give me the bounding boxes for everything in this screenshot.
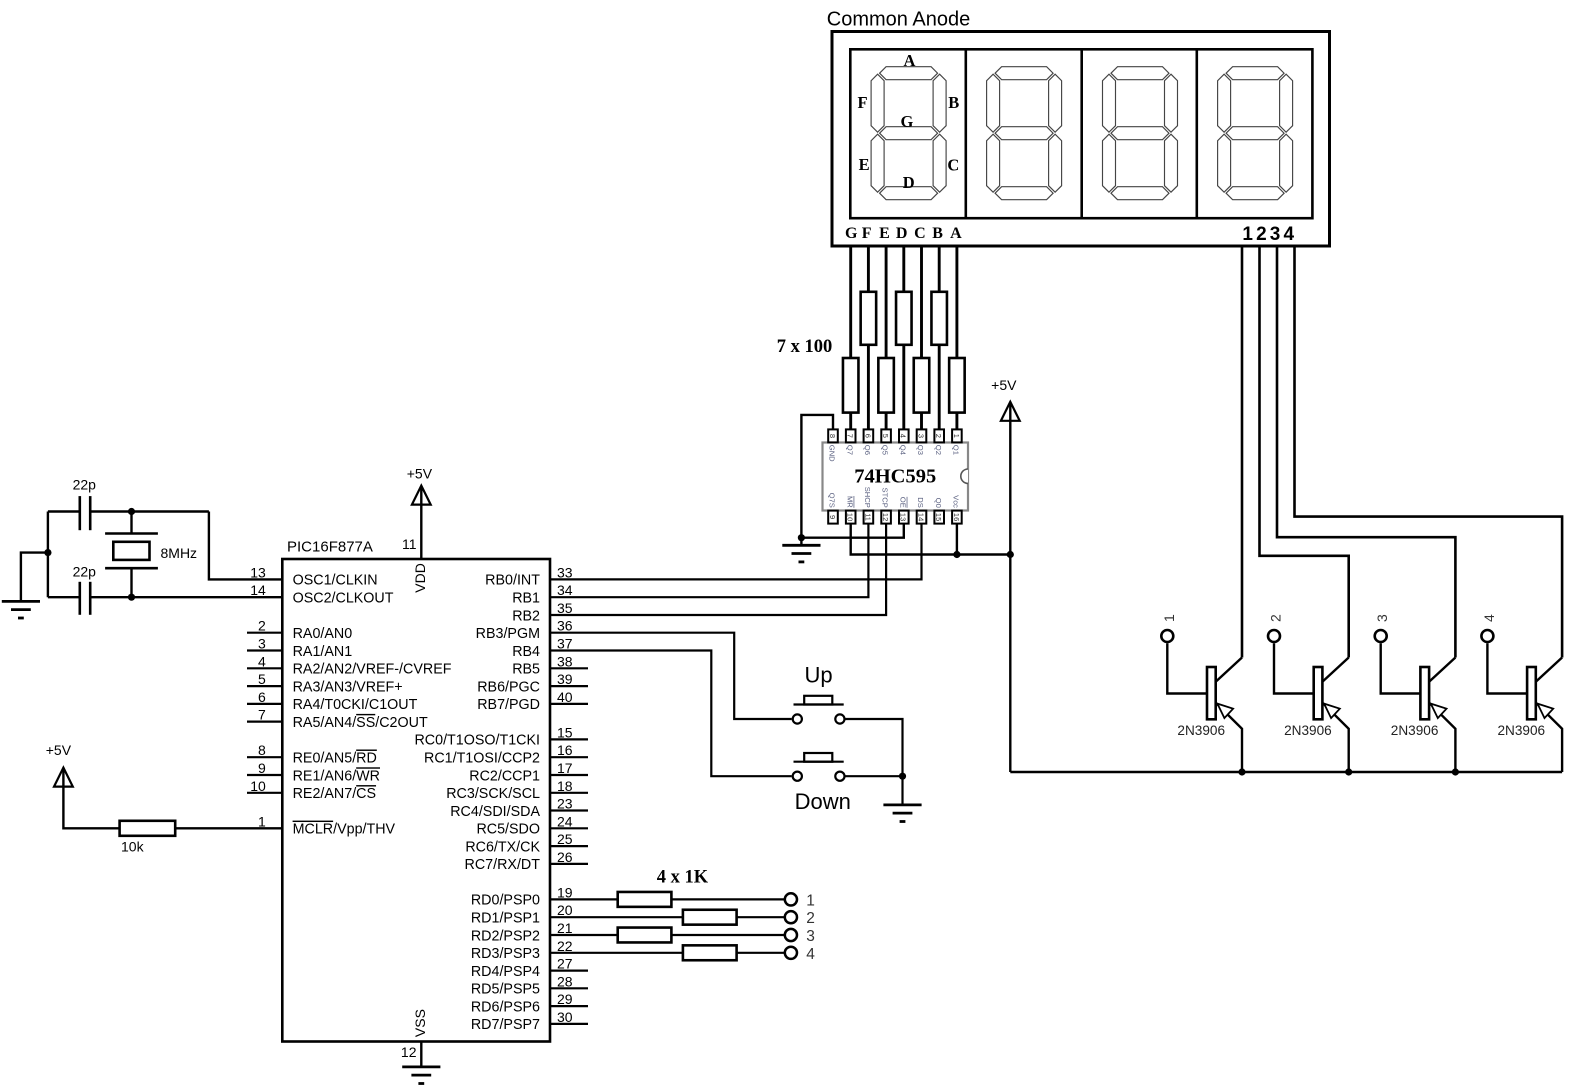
svg-text:14: 14 <box>250 582 266 598</box>
output terminal 3 <box>785 929 797 941</box>
7-segment display module outer box <box>832 32 1330 247</box>
pin stub right pin 16 RC1/T1OSI/CCP2 <box>550 756 588 758</box>
wire display segment D to 74HC595 pin 4 <box>902 246 905 429</box>
svg-text:A: A <box>950 225 962 242</box>
svg-text:13: 13 <box>250 564 266 580</box>
svg-text:2: 2 <box>806 910 815 927</box>
wire display pin 1 to Q1 collector <box>1241 246 1244 658</box>
pin stub right pin 26 RC7/RX/DT <box>550 863 588 865</box>
base terminal 3 <box>1375 630 1387 642</box>
svg-text:RE0/AN5/RD: RE0/AN5/RD <box>293 751 377 767</box>
resistor 100 ohm for segment C <box>914 358 930 413</box>
svg-text:24: 24 <box>557 813 573 829</box>
pin stub left pin 7 RA5/AN4/SS/C2OUT <box>247 720 282 722</box>
svg-text:F: F <box>857 93 867 112</box>
svg-text:1: 1 <box>1242 224 1253 245</box>
junction buttons ground node <box>899 773 906 780</box>
wire display segment A to 74HC595 pin 1 <box>955 246 958 429</box>
74HC595 bottom pin box 11 <box>864 511 874 524</box>
svg-text:7: 7 <box>258 707 266 723</box>
svg-text:2N3906: 2N3906 <box>1391 723 1439 738</box>
74HC595 bottom pin box 15 <box>934 511 944 524</box>
wire RD1/PSP1 to output 2 <box>550 916 784 918</box>
wire +5V to MCLR pin 1 <box>63 768 282 829</box>
pin stub right pin 30 RD7/PSP7 <box>550 1023 588 1025</box>
svg-text:Q5: Q5 <box>881 445 890 455</box>
wire left side of caps <box>47 512 49 598</box>
wire OSC1 from crystal to pin 13 <box>209 512 282 580</box>
svg-text:Up: Up <box>804 662 832 687</box>
pin stub left pin 6 RA4/T0CKI/C1OUT <box>247 703 282 705</box>
svg-text:DS: DS <box>916 497 925 508</box>
svg-text:28: 28 <box>557 973 573 989</box>
svg-text:F: F <box>862 225 872 242</box>
svg-text:Q7: Q7 <box>845 445 854 455</box>
svg-text:RD1/PSP1: RD1/PSP1 <box>471 911 540 927</box>
svg-text:25: 25 <box>557 831 573 847</box>
pin stub right pin 25 RC6/TX/CK <box>550 845 588 847</box>
svg-text:PIC16F877A: PIC16F877A <box>287 539 373 556</box>
svg-text:9: 9 <box>258 760 266 776</box>
svg-text:RB5: RB5 <box>512 662 540 678</box>
svg-text:3: 3 <box>1270 224 1281 245</box>
svg-text:12: 12 <box>401 1044 417 1060</box>
wire 74HC595 pin 10 MR to +5V rail <box>851 524 1011 555</box>
junction emitter Q1 on +5V rail <box>1238 768 1245 775</box>
svg-text:1: 1 <box>952 434 961 438</box>
svg-text:2: 2 <box>1256 224 1267 245</box>
svg-text:30: 30 <box>557 1009 573 1025</box>
svg-text:38: 38 <box>557 653 573 669</box>
svg-text:RA2/AN2/VREF-/CVREF: RA2/AN2/VREF-/CVREF <box>293 662 452 678</box>
resistor 1K number 3 <box>618 928 672 943</box>
svg-text:Q1: Q1 <box>952 445 961 455</box>
svg-text:16: 16 <box>557 742 573 758</box>
svg-text:MCLR/Vpp/THV: MCLR/Vpp/THV <box>293 822 396 838</box>
svg-text:1: 1 <box>258 813 266 829</box>
wire display segment F to 74HC595 pin 6 <box>867 246 870 429</box>
output terminal 4 <box>785 947 797 959</box>
resistor 100 ohm for segment E <box>878 358 894 413</box>
junction emitter Q3 on +5V rail <box>1452 768 1459 775</box>
pin stub right pin 38 RB5 <box>550 667 588 669</box>
transistor Q1 emitter <box>1216 703 1242 772</box>
pin stub right pin 24 RC5/SDO <box>550 827 588 829</box>
svg-text:17: 17 <box>557 760 573 776</box>
pin stub left pin 9 RE1/AN6/WR <box>247 774 282 776</box>
transistor Q3 emitter <box>1429 703 1455 772</box>
junction Vcc pin16 on +5V rail <box>953 551 960 558</box>
svg-text:4: 4 <box>806 946 815 963</box>
transistor Q4 2N3906 body bar <box>1527 667 1536 719</box>
svg-text:7: 7 <box>846 434 855 438</box>
svg-text:4: 4 <box>1481 614 1497 622</box>
base terminal 1 <box>1161 630 1173 642</box>
svg-text:5: 5 <box>881 434 890 438</box>
74HC595 top pin box 7 <box>846 429 856 442</box>
pin stub left pin 5 RA3/AN3/VREF+ <box>247 685 282 687</box>
svg-text:11: 11 <box>863 513 872 521</box>
svg-text:74HC595: 74HC595 <box>854 466 936 488</box>
wire +5V vertical to transistor emitter rail <box>1009 402 1011 772</box>
wire RB1 pin34 to 74HC595 SHCP pin11 <box>550 524 868 597</box>
junction ground node near 74HC595 <box>798 534 805 541</box>
pin stub left pin 3 RA1/AN1 <box>247 649 282 651</box>
base terminal 4 <box>1481 630 1493 642</box>
74HC595 top pin box 4 <box>899 429 909 442</box>
svg-text:E: E <box>879 225 890 242</box>
svg-text:6: 6 <box>258 689 266 705</box>
svg-text:14: 14 <box>916 513 925 521</box>
svg-text:15: 15 <box>557 724 573 740</box>
7-segment digit 4 (all segments off) <box>1218 67 1293 200</box>
pin stub right pin 17 RC2/CCP1 <box>550 774 588 776</box>
svg-text:7 x 100: 7 x 100 <box>777 337 833 357</box>
svg-text:4 x 1K: 4 x 1K <box>657 868 709 888</box>
svg-text:33: 33 <box>557 564 573 580</box>
resistor 1K number 1 <box>618 892 672 907</box>
svg-text:15: 15 <box>934 513 943 521</box>
svg-text:B: B <box>932 225 943 242</box>
svg-text:RA5/AN4/SS/C2OUT: RA5/AN4/SS/C2OUT <box>293 715 428 731</box>
svg-text:RD0/PSP0: RD0/PSP0 <box>471 893 540 909</box>
transistor Q2 2N3906 body bar <box>1314 667 1323 719</box>
resistor 100 ohm for segment A <box>949 358 965 413</box>
svg-text:8: 8 <box>828 434 837 438</box>
svg-text:MR: MR <box>845 496 854 508</box>
svg-text:3: 3 <box>806 928 815 945</box>
svg-text:27: 27 <box>557 956 573 972</box>
svg-text:11: 11 <box>402 536 417 552</box>
svg-text:RD6/PSP6: RD6/PSP6 <box>471 999 540 1015</box>
svg-text:VDD: VDD <box>412 563 428 593</box>
wire base of Q2 <box>1274 643 1314 693</box>
+5V emitter rail <box>1010 771 1562 773</box>
svg-text:8: 8 <box>258 742 266 758</box>
svg-text:2: 2 <box>258 618 266 634</box>
7-segment digit 3 (all segments off) <box>1103 67 1178 200</box>
svg-text:4: 4 <box>1284 224 1295 245</box>
svg-text:Common Anode: Common Anode <box>827 9 970 31</box>
resistor 10k <box>120 821 176 836</box>
svg-text:RA0/AN0: RA0/AN0 <box>293 626 353 642</box>
svg-text:Q0: Q0 <box>934 498 943 508</box>
svg-text:1: 1 <box>806 892 815 909</box>
svg-text:26: 26 <box>557 849 573 865</box>
resistor 100 ohm for segment D <box>896 292 912 345</box>
svg-text:RB0/INT: RB0/INT <box>485 573 540 589</box>
svg-text:Vcc: Vcc <box>952 495 961 508</box>
wire display pin 3 to Q3 collector <box>1277 246 1455 658</box>
svg-text:RB2: RB2 <box>512 608 540 624</box>
svg-text:4: 4 <box>258 653 266 669</box>
svg-text:RC5/SDO: RC5/SDO <box>476 822 540 838</box>
transistor Q3 collector <box>1429 658 1455 682</box>
transistor Q4 emitter <box>1536 703 1562 772</box>
svg-text:Q6: Q6 <box>863 445 872 455</box>
wire VSS pin 12 to ground <box>420 1042 422 1067</box>
svg-text:C: C <box>947 156 959 175</box>
wire Down button to ground node <box>845 775 902 777</box>
svg-text:Q7S: Q7S <box>828 493 837 508</box>
svg-text:Q2: Q2 <box>934 445 943 455</box>
wire RD2/PSP2 to output 3 <box>550 934 784 936</box>
wire display segment C to 74HC595 pin 3 <box>920 246 923 429</box>
resistor 1K number 4 <box>683 945 737 960</box>
wire Up button to ground node <box>845 719 902 776</box>
svg-text:Down: Down <box>795 789 851 814</box>
74HC595 bottom pin box 14 <box>917 511 927 524</box>
svg-text:3: 3 <box>258 636 266 652</box>
74HC595 bottom pin box 13 <box>899 511 909 524</box>
pin stub right pin 15 RC0/T1OSO/T1CKI <box>550 738 588 740</box>
svg-text:2N3906: 2N3906 <box>1177 723 1225 738</box>
svg-text:OSC1/CLKIN: OSC1/CLKIN <box>293 573 378 589</box>
svg-text:5: 5 <box>258 671 266 687</box>
svg-text:RE2/AN7/CS: RE2/AN7/CS <box>293 786 376 802</box>
emitter arrow Q3 <box>1431 704 1447 719</box>
svg-text:RA1/AN1: RA1/AN1 <box>293 644 353 660</box>
svg-text:34: 34 <box>557 582 573 598</box>
output terminal 2 <box>785 911 797 923</box>
svg-text:RB4: RB4 <box>512 644 540 660</box>
74HC595 top pin box 3 <box>917 429 927 442</box>
svg-text:RD7/PSP7: RD7/PSP7 <box>471 1017 540 1033</box>
pin stub left pin 4 RA2/AN2/VREF-/CVREF <box>247 667 282 669</box>
transistor Q2 emitter <box>1322 703 1348 772</box>
svg-text:8MHz: 8MHz <box>161 545 198 561</box>
wire RD0/PSP0 to output 1 <box>550 898 784 900</box>
svg-text:A: A <box>903 51 915 70</box>
svg-text:13: 13 <box>899 513 908 521</box>
svg-text:39: 39 <box>557 671 573 687</box>
wire base of Q1 <box>1167 643 1207 693</box>
wire display pin 4 to Q4 collector <box>1295 246 1563 658</box>
PIC16F877A IC body <box>282 559 550 1042</box>
svg-text:3: 3 <box>916 434 925 438</box>
junction crystal top node <box>128 508 135 515</box>
svg-text:VSS: VSS <box>412 1009 428 1037</box>
svg-text:RE1/AN6/WR: RE1/AN6/WR <box>293 768 380 784</box>
svg-text:22p: 22p <box>73 563 97 579</box>
junction crystal bottom node <box>128 594 135 601</box>
wire base of Q4 <box>1487 643 1527 693</box>
74HC595 bottom pin box 10 <box>846 511 856 524</box>
wire 74HC595 pin 13 OE to ground <box>801 524 903 538</box>
svg-text:GND: GND <box>828 445 837 462</box>
capacitor 22p bottom <box>48 596 79 598</box>
crystal X1 8MHz <box>130 512 132 534</box>
svg-text:19: 19 <box>557 884 573 900</box>
resistor 1K number 2 <box>683 910 737 925</box>
svg-text:STCP: STCP <box>881 488 890 508</box>
svg-text:+5V: +5V <box>46 742 72 758</box>
svg-text:OE: OE <box>898 497 907 508</box>
pin stub right pin 29 RD6/PSP6 <box>550 1005 588 1007</box>
svg-text:RD3/PSP3: RD3/PSP3 <box>471 946 540 962</box>
wire display segment B to 74HC595 pin 2 <box>938 246 941 429</box>
pin stub right pin 39 RB6/PGC <box>550 685 588 687</box>
svg-text:2: 2 <box>934 434 943 438</box>
pin stub left pin 2 RA0/AN0 <box>247 632 282 634</box>
svg-text:16: 16 <box>952 513 961 521</box>
svg-text:RD2/PSP2: RD2/PSP2 <box>471 928 540 944</box>
svg-text:37: 37 <box>557 636 573 652</box>
svg-text:22p: 22p <box>73 477 97 493</box>
svg-text:G: G <box>900 112 913 131</box>
output terminal 1 <box>785 893 797 905</box>
wire RB2 pin35 to 74HC595 STCP pin12 <box>550 524 886 615</box>
svg-text:RC2/CCP1: RC2/CCP1 <box>469 768 540 784</box>
wire display segment G to 74HC595 pin 7 <box>849 246 852 429</box>
svg-text:D: D <box>903 173 915 192</box>
wire display pin 2 to Q2 collector <box>1260 246 1349 658</box>
ground symbol below PIC VSS <box>402 1066 440 1069</box>
wire VDD pin 11 <box>420 486 422 559</box>
transistor Q4 collector <box>1536 658 1562 682</box>
pin stub right pin 27 RD4/PSP4 <box>550 969 588 971</box>
wire display segment E to 74HC595 pin 5 <box>885 246 888 429</box>
transistor Q1 2N3906 body bar <box>1207 667 1216 719</box>
wire RB4 pin37 to Down button <box>550 651 792 777</box>
pin stub right pin 40 RB7/PGD <box>550 703 588 705</box>
7-segment digit 2 (all segments off) <box>987 67 1062 200</box>
74HC595 bottom pin box 16 <box>952 511 962 524</box>
wire RD3/PSP3 to output 4 <box>550 952 784 954</box>
svg-text:6: 6 <box>863 434 872 438</box>
svg-text:C: C <box>914 225 926 242</box>
svg-text:D: D <box>896 225 908 242</box>
svg-text:OSC2/CLKOUT: OSC2/CLKOUT <box>293 591 394 607</box>
resistor 100 ohm for segment G <box>843 358 859 413</box>
svg-text:E: E <box>859 155 870 174</box>
74HC595 top pin box 1 <box>952 429 962 442</box>
pin stub right pin 18 RC3/SCK/SCL <box>550 792 588 794</box>
svg-text:RD4/PSP4: RD4/PSP4 <box>471 964 540 980</box>
svg-text:35: 35 <box>557 600 573 616</box>
wire 74HC595 pin 8 GND to ground <box>801 415 833 538</box>
svg-text:9: 9 <box>828 515 837 519</box>
svg-text:B: B <box>948 93 959 112</box>
svg-text:RC1/T1OSI/CCP2: RC1/T1OSI/CCP2 <box>424 751 540 767</box>
74HC595 top pin box 2 <box>934 429 944 442</box>
base terminal 2 <box>1268 630 1280 642</box>
svg-text:29: 29 <box>557 991 573 1007</box>
transistor Q3 2N3906 body bar <box>1420 667 1429 719</box>
pin stub left pin 10 RE2/AN7/CS <box>247 792 282 794</box>
svg-text:2N3906: 2N3906 <box>1498 723 1546 738</box>
resistor 100 ohm for segment B <box>931 292 947 345</box>
display inner frame with 4 digit cells <box>850 49 1312 218</box>
svg-text:2N3906: 2N3906 <box>1284 723 1332 738</box>
svg-text:SHCP: SHCP <box>863 487 872 508</box>
svg-text:3: 3 <box>1374 614 1390 622</box>
svg-text:10: 10 <box>846 513 855 521</box>
74HC595 top pin box 8 <box>828 429 838 442</box>
svg-text:RB7/PGD: RB7/PGD <box>477 697 540 713</box>
wire RB3/PGM pin36 to Up button <box>550 633 792 719</box>
svg-text:23: 23 <box>557 796 573 812</box>
transistor Q1 collector <box>1216 658 1242 682</box>
svg-text:12: 12 <box>881 513 890 521</box>
junction crystal ground tap <box>44 549 51 556</box>
resistor 100 ohm for segment F <box>861 292 877 345</box>
svg-text:RB3/PGM: RB3/PGM <box>476 626 540 642</box>
junction +5V rail node <box>1007 551 1014 558</box>
wire 74HC595 pin 16 Vcc to +5V rail <box>956 524 958 555</box>
ground symbol below 74HC595 <box>800 538 802 546</box>
junction emitter Q2 on +5V rail <box>1345 768 1352 775</box>
svg-text:20: 20 <box>557 902 573 918</box>
74HC595 top pin box 6 <box>864 429 874 442</box>
74HC595 top pin box 5 <box>881 429 891 442</box>
push button Up <box>794 703 844 705</box>
74HC595 IC body <box>823 443 969 511</box>
svg-text:Q3: Q3 <box>916 445 925 455</box>
svg-text:RA3/AN3/VREF+: RA3/AN3/VREF+ <box>293 679 403 695</box>
svg-text:21: 21 <box>557 920 573 936</box>
svg-text:RC3/SCK/SCL: RC3/SCK/SCL <box>446 786 540 802</box>
svg-text:G: G <box>845 225 858 242</box>
svg-text:18: 18 <box>557 778 573 794</box>
svg-text:RB1: RB1 <box>512 591 540 607</box>
emitter arrow Q2 <box>1324 704 1340 719</box>
svg-text:36: 36 <box>557 618 573 634</box>
capacitor 22p top <box>48 510 79 512</box>
emitter arrow Q1 <box>1217 704 1233 719</box>
push button Down <box>794 761 844 763</box>
7-segment digit 1 (all segments off) <box>871 67 946 200</box>
display segment pin labels G F E D C B A <box>845 225 962 242</box>
svg-text:1: 1 <box>1161 614 1177 622</box>
wire base of Q3 <box>1381 643 1421 693</box>
svg-text:RD5/PSP5: RD5/PSP5 <box>471 982 540 998</box>
svg-text:Q4: Q4 <box>898 445 907 455</box>
svg-text:RC4/SDI/SDA: RC4/SDI/SDA <box>450 804 540 820</box>
pin stub right pin 23 RC4/SDI/SDA <box>550 809 588 811</box>
wire RB0/INT pin33 to 74HC595 DS pin14 <box>550 524 922 579</box>
pin stub left pin 8 RE0/AN5/RD <box>247 756 282 758</box>
74HC595 notch on right edge <box>961 469 968 483</box>
emitter arrow Q4 <box>1538 704 1554 719</box>
svg-text:RC6/TX/CK: RC6/TX/CK <box>465 839 540 855</box>
svg-text:RC7/RX/DT: RC7/RX/DT <box>465 857 541 873</box>
svg-text:RB6/PGC: RB6/PGC <box>477 679 540 695</box>
svg-text:10k: 10k <box>121 839 145 855</box>
svg-text:22: 22 <box>557 938 573 954</box>
segment letter labels A F B G E C D inside digit 1 <box>857 51 959 192</box>
svg-text:+5V: +5V <box>991 377 1017 393</box>
pin stub right pin 28 RD5/PSP5 <box>550 987 588 989</box>
74HC595 bottom pin box 9 <box>828 511 838 524</box>
svg-text:4: 4 <box>899 434 908 438</box>
svg-text:40: 40 <box>557 689 573 705</box>
svg-text:RC0/T1OSO/T1CKI: RC0/T1OSO/T1CKI <box>414 733 540 749</box>
ground symbol below buttons <box>901 776 903 805</box>
svg-text:RA4/T0CKI/C1OUT: RA4/T0CKI/C1OUT <box>293 697 418 713</box>
svg-text:10: 10 <box>250 778 266 794</box>
ground symbol crystal <box>2 600 40 603</box>
svg-text:+5V: +5V <box>407 466 433 482</box>
svg-text:2: 2 <box>1268 614 1284 622</box>
display digit select pin labels 1 2 3 4 <box>1242 224 1294 245</box>
transistor Q2 collector <box>1322 658 1348 682</box>
wire crystal ground tap <box>21 553 48 602</box>
74HC595 bottom pin box 12 <box>881 511 891 524</box>
